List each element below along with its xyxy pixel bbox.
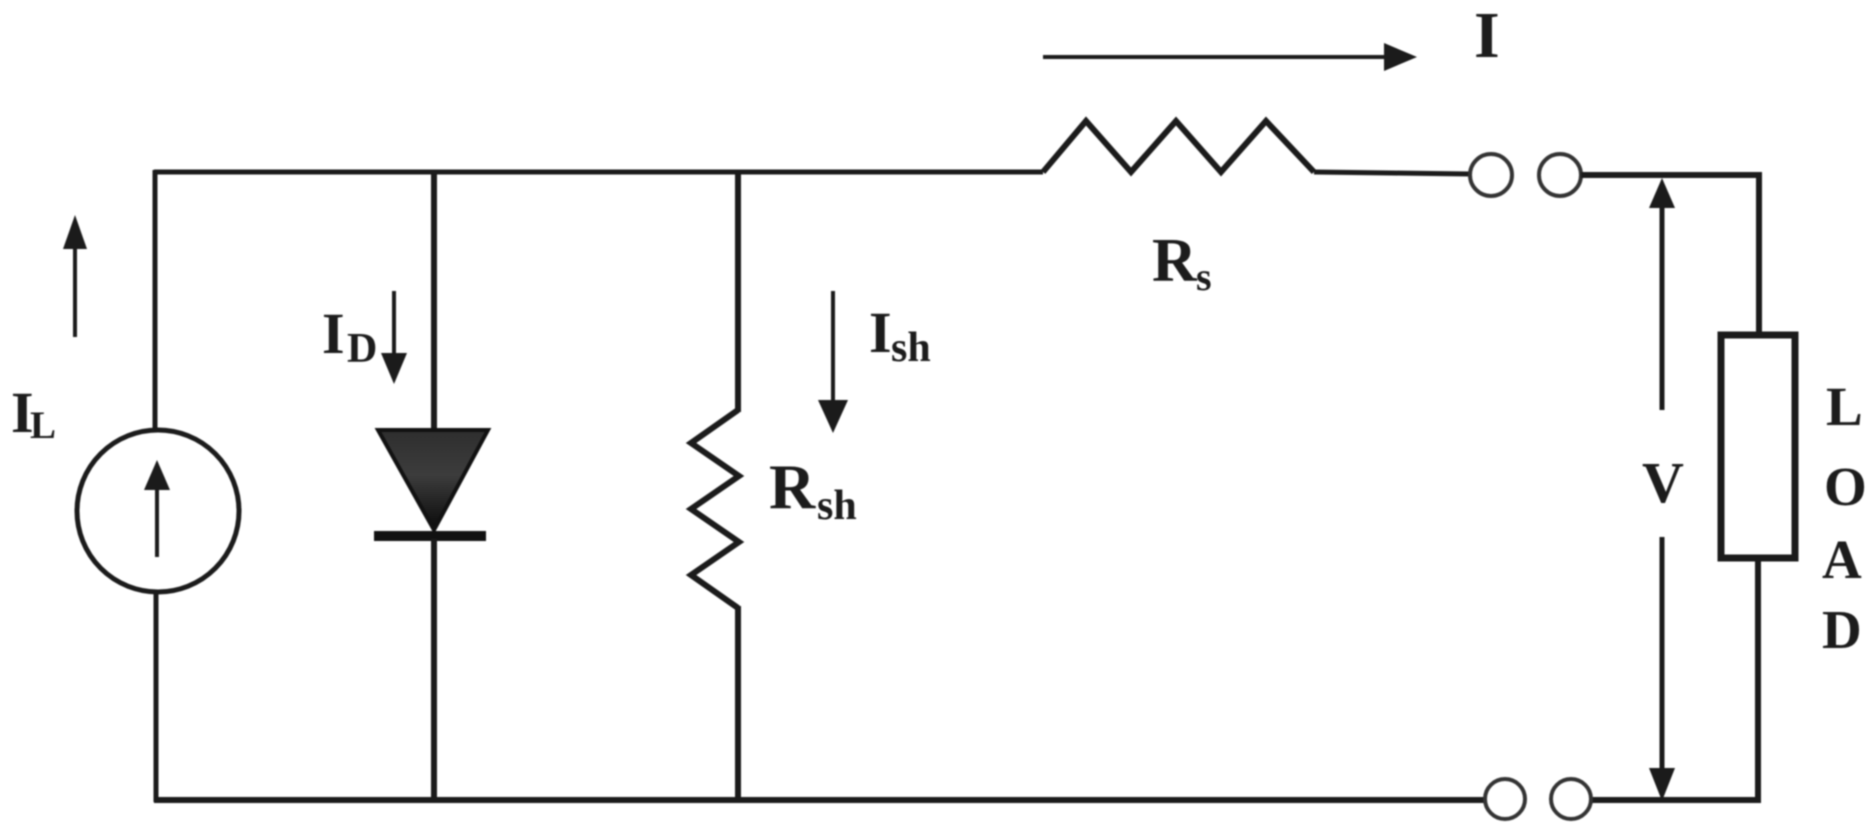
- load resistor rectangle: [1721, 335, 1795, 558]
- label R_s: [1152, 227, 1212, 299]
- wire left vertical top: [153, 170, 158, 432]
- resistor R_s: [1043, 121, 1314, 172]
- svg-text:O: O: [1824, 456, 1867, 517]
- svg-text:I: I: [869, 300, 892, 365]
- svg-text:A: A: [1822, 529, 1862, 590]
- svg-text:L: L: [1826, 376, 1863, 437]
- label I_sh: [869, 300, 931, 371]
- arrow V upper segment with up head: [1649, 178, 1675, 410]
- label I_D: [322, 301, 377, 372]
- wire diode branch bottom: [431, 539, 437, 802]
- resistor R_sh: [691, 410, 739, 608]
- diode D: [374, 430, 488, 541]
- arrow I output current: [1043, 43, 1417, 71]
- svg-text:I: I: [1474, 0, 1500, 72]
- label LOAD: [1822, 376, 1867, 660]
- svg-text:D: D: [347, 326, 377, 372]
- svg-text:s: s: [1196, 254, 1212, 299]
- svg-text:L: L: [30, 404, 56, 447]
- arrow I_D down: [381, 291, 407, 384]
- wire left vertical bottom: [154, 590, 159, 802]
- label I_L: [11, 380, 56, 447]
- wire bottom bus: [154, 797, 1486, 803]
- terminal bottom left: [1485, 779, 1525, 819]
- arrow I_sh down: [818, 291, 848, 433]
- svg-text:I: I: [322, 301, 345, 366]
- svg-text:sh: sh: [817, 483, 857, 529]
- arrow I_L up: [63, 215, 87, 337]
- svg-text:V: V: [1642, 450, 1684, 515]
- terminal top left: [1470, 154, 1512, 196]
- wire Rsh branch top: [735, 170, 741, 412]
- wire top bus: [154, 170, 1043, 175]
- wire diode branch top: [431, 170, 437, 432]
- svg-text:sh: sh: [891, 325, 931, 371]
- wire Rsh branch bottom: [735, 606, 741, 802]
- svg-text:R: R: [769, 451, 816, 522]
- current source I_L: [77, 430, 239, 592]
- wire terminal to load: [1581, 175, 1759, 336]
- terminal top right: [1539, 154, 1581, 196]
- label R_sh: [769, 451, 857, 529]
- terminal bottom right: [1551, 779, 1591, 819]
- arrow V lower segment with down head: [1649, 537, 1675, 801]
- wire resistor to terminal: [1314, 172, 1470, 174]
- svg-text:D: D: [1822, 599, 1862, 660]
- svg-text:R: R: [1152, 227, 1198, 295]
- wire load to bottom bus: [1591, 557, 1758, 800]
